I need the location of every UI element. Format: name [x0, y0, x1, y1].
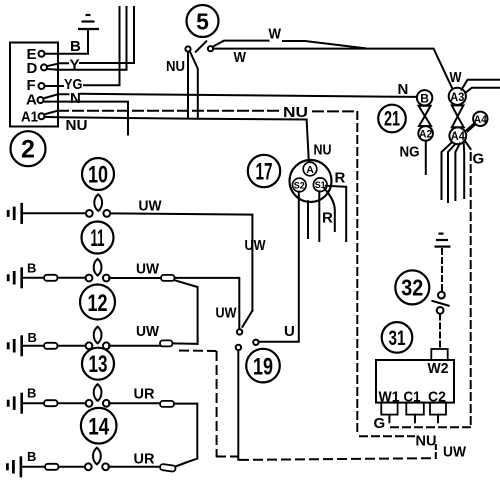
wire NU dash-dot (A1 terminal) [44, 104, 357, 121]
connector (row 3 right) [160, 340, 173, 346]
wire (row 5 left) [22, 466, 45, 468]
earth (lamp row 5) [6, 456, 22, 477]
wire (row 3 mid) [58, 345, 86, 347]
svg-text:NU: NU [66, 117, 88, 134]
wire dashed (ground to switch 32) [441, 249, 443, 291]
wire (A3 right, to edge) [465, 88, 500, 93]
wire stub (C1) [414, 415, 416, 423]
svg-text:B: B [28, 330, 37, 345]
wire dashed (bottom long run) [240, 458, 433, 460]
svg-text:R: R [335, 170, 346, 187]
terminal A of 17 [303, 162, 317, 176]
switch 5 circle label [187, 5, 219, 37]
bulb (row 2) [86, 259, 110, 282]
wire (switch 5 blade pivot drop) [190, 51, 198, 119]
wire (row 2 branch to row 3) [175, 280, 198, 344]
wire UW (row 1 to switch 19) [111, 198, 253, 311]
svg-text:D: D [27, 60, 38, 77]
wire (row 2 mid) [58, 277, 86, 279]
terminal W2 tab [431, 349, 447, 360]
svg-text:N: N [398, 81, 409, 98]
wire UW (row 2 to switch 19 top contact) [175, 278, 240, 329]
svg-text:UR: UR [134, 386, 155, 403]
wire (A4 to A4 link) [466, 124, 474, 131]
svg-text:B: B [27, 260, 36, 275]
switch 19 blade [243, 311, 253, 327]
terminal S2 of 17 [293, 178, 307, 192]
wire NU (to ignition switch A) [307, 120, 332, 164]
terminal E [27, 46, 45, 63]
connector (row 5 left) [45, 464, 59, 470]
wire (17 harness 2) [307, 201, 309, 238]
wire (row 1 left) [23, 212, 86, 214]
wiper motor U31 body [376, 360, 454, 403]
control box U2 [10, 43, 58, 127]
terminal tab C2 [430, 403, 446, 415]
terminal tab C1 [406, 403, 424, 415]
svg-text:R: R [322, 210, 333, 227]
switch 5 left contact [185, 46, 190, 51]
connector (row 4 left) [44, 400, 58, 406]
svg-text:G: G [374, 415, 386, 432]
snap connector bowtie A3-A4 [452, 105, 464, 127]
svg-text:B: B [27, 385, 36, 400]
switch 19 left contact [236, 345, 241, 350]
terminal F [27, 77, 45, 94]
wire (row 4 mid) [58, 402, 86, 404]
svg-text:UW: UW [136, 323, 160, 340]
svg-text:A1: A1 [21, 109, 38, 126]
connector (row 5 right) [160, 464, 176, 472]
wire stub (C2) [437, 415, 439, 423]
wire R (S1 curve down) [325, 189, 335, 232]
wire B (E terminal to ground) [45, 29, 89, 54]
wire R (S1 right then down) [326, 186, 346, 241]
wire (A4 harness 4) [463, 142, 466, 198]
circle label 31 [382, 322, 413, 353]
wire N (A terminal to connector B) [43, 90, 416, 107]
ignition switch U17 body [290, 160, 332, 202]
svg-text:W2: W2 [428, 360, 449, 377]
wire (17 harness 3, S1 down) [318, 191, 320, 241]
wire (switch 19 left contact down) [237, 350, 239, 460]
switch 5 blade [196, 41, 207, 52]
wire (A4 harness 2) [448, 144, 455, 202]
svg-text:17: 17 [256, 159, 273, 186]
lamp 12 circle label [80, 285, 115, 320]
wire YG (F terminal) [45, 7, 120, 93]
wire UW (row 3) [109, 323, 160, 346]
wire UR (row 4) [109, 386, 160, 404]
switch 5 right contact [208, 46, 213, 51]
wire UW (row 2) [109, 261, 161, 278]
svg-text:2: 2 [21, 136, 35, 164]
circle label 32 [395, 270, 429, 304]
svg-text:21: 21 [384, 108, 400, 131]
svg-text:N: N [70, 90, 81, 107]
svg-text:UW: UW [136, 261, 160, 278]
svg-text:14: 14 [88, 414, 110, 441]
wire NU (A1 terminal solid, to switch 5 and ignition 17) [44, 117, 306, 134]
bulb (row 5) [85, 448, 109, 470]
bulb (row 3) [86, 327, 110, 349]
svg-text:NU: NU [166, 58, 185, 75]
earth (lamp row 1) [7, 203, 23, 224]
svg-text:A: A [26, 92, 37, 109]
ground (above switch 32) [435, 234, 451, 247]
circle label 2 [11, 131, 46, 166]
svg-text:32: 32 [401, 275, 423, 301]
wire U (S2 down to switch 19) [259, 192, 299, 342]
switch 19 top contact [237, 329, 242, 334]
svg-text:UR: UR [134, 450, 155, 467]
wire G stub (W1) [388, 415, 390, 423]
wire dashed (switch 32 to W2) [439, 315, 441, 349]
lamp 14 circle label [81, 408, 117, 444]
svg-text:NU: NU [416, 433, 437, 450]
connector (row 2 right) [161, 275, 175, 281]
wire NU (switch 5 drop to NU bus) [187, 52, 189, 118]
wire Y (lower, D terminal) [47, 7, 127, 70]
svg-text:G: G [473, 151, 485, 168]
connector A4 [449, 127, 466, 144]
svg-text:31: 31 [389, 327, 406, 350]
bulb (row 1) [86, 194, 110, 217]
connector (row 4 right) [160, 401, 174, 407]
switch 32 blade [432, 301, 448, 306]
svg-text:UW: UW [443, 444, 467, 461]
svg-text:A2: A2 [419, 128, 432, 140]
svg-text:U: U [284, 323, 295, 340]
svg-text:10: 10 [88, 162, 108, 189]
terminal S1 of 17 [313, 178, 327, 192]
wire dashed (row 3 to bottom) [180, 351, 237, 457]
svg-text:UW: UW [139, 198, 163, 215]
wire (row 3 left) [23, 345, 44, 347]
wire (A3 top right, to edge) [462, 80, 500, 90]
svg-text:W: W [450, 69, 463, 86]
connector A3 [449, 88, 466, 105]
svg-text:A4: A4 [474, 114, 488, 126]
lamp 13 circle label [82, 348, 114, 380]
switch 19 right contact [253, 340, 258, 345]
lamp 10 circle label [82, 158, 114, 190]
svg-text:S2: S2 [294, 180, 305, 191]
svg-text:B: B [27, 449, 36, 464]
svg-text:W: W [234, 49, 247, 66]
connector A2 [418, 126, 433, 141]
connector A4 (second) [473, 112, 488, 126]
svg-text:11: 11 [91, 225, 105, 252]
connector B (21) [417, 90, 432, 105]
snap connector bowtie B-A2 [419, 106, 431, 126]
lamp 11 circle label [82, 222, 114, 254]
wire (row 5 to junction) [176, 462, 187, 466]
wire (row 5 mid) [59, 466, 86, 468]
connector (row 3 left) [44, 343, 58, 349]
wire W (upper from switch 5) [213, 26, 365, 49]
earth (lamp row 4) [7, 393, 23, 414]
circle label 17 [248, 155, 280, 187]
wire (row 3 to junction) [173, 342, 198, 344]
terminal A [26, 92, 44, 109]
wire (A4 harness 3) [455, 144, 459, 201]
earth (lamp row 2) [7, 267, 23, 288]
wire (row 4 down to row 5) [174, 404, 197, 466]
switch 32 top contact [438, 292, 445, 299]
wire (A4 harness 1) [442, 143, 452, 199]
earth (lamp row 3) [7, 335, 23, 356]
wire (row 4 left) [23, 402, 44, 404]
circle label 21 [378, 105, 406, 133]
wire W (lower from switch 5 to A3) [213, 49, 452, 89]
wire NG (A2 stub) [425, 141, 427, 174]
wire G dashed (A4 down) [465, 141, 471, 428]
wire UR (row 5) [109, 450, 160, 467]
svg-text:5: 5 [196, 9, 209, 35]
svg-text:12: 12 [88, 290, 108, 317]
svg-text:NU: NU [314, 142, 332, 159]
wire NU dashed (down right side) [357, 112, 414, 436]
svg-text:B: B [420, 91, 429, 105]
wire dashed (bottom corner up) [435, 445, 437, 458]
bulb (row 4) [86, 384, 110, 406]
connector (row 2 left) [44, 275, 58, 281]
svg-text:UW: UW [245, 237, 267, 254]
svg-text:NG: NG [400, 144, 420, 161]
wire Y (upper, D terminal) [47, 7, 134, 74]
circle label 19 [246, 349, 280, 383]
svg-text:A: A [306, 164, 314, 176]
svg-text:13: 13 [89, 351, 108, 378]
terminal tab W1 [381, 403, 397, 415]
wire dashed (G run under 31) [391, 426, 471, 428]
svg-text:Y: Y [70, 57, 80, 74]
wire N stub (A terminal lower prong) [43, 102, 128, 135]
svg-text:W: W [269, 26, 282, 43]
wire (row 2 left) [23, 277, 44, 279]
terminal A1 [21, 109, 45, 126]
terminal D [27, 60, 48, 77]
svg-text:B: B [70, 38, 81, 55]
switch 32 bottom contact [437, 307, 444, 314]
svg-text:UW: UW [216, 305, 238, 322]
svg-text:19: 19 [253, 354, 273, 381]
svg-text:A3: A3 [450, 90, 464, 104]
ground (top, battery earth) [78, 15, 99, 29]
